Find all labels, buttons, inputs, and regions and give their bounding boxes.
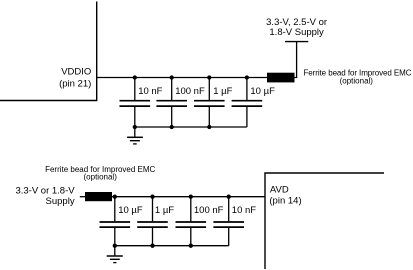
junction node C5 bottom [113,244,117,248]
ferrite bead FB1 (top circuit) [267,73,295,83]
junction node C4 top [245,75,249,79]
svg-text:1.8-V Supply: 1.8-V Supply [269,27,324,38]
annotation ferrite bead for improved EMC (bottom, optional) [45,165,155,182]
junction node C7 top [189,195,193,199]
svg-text:1 µF: 1 µF [155,205,174,216]
junction node C2 bottom [170,125,174,129]
ground (top circuit) [127,127,143,144]
svg-text:100 nF: 100 nF [194,205,224,216]
wire bottom rail (top circuit) [135,126,247,128]
svg-text:10 µF: 10 µF [250,86,275,97]
pin label VDDIO (pin 21) [59,66,91,89]
capacitor C8 (10 nF) [213,197,244,246]
capacitor C1 (10 nF) [120,78,151,128]
svg-text:(pin 21): (pin 21) [59,78,91,89]
junction node C7 bottom [189,244,193,248]
capacitor C7 (100 nF) [176,197,207,246]
svg-text:(pin 14): (pin 14) [269,196,301,207]
wire ferrite bead to supply riser [295,42,297,78]
ferrite bead FB2 (bottom circuit) [85,192,112,201]
capacitor C5 (10 uF) [100,197,131,246]
supply terminal bar (top) [285,41,308,43]
svg-text:(optional): (optional) [84,173,118,182]
svg-text:VDDIO: VDDIO [61,66,91,77]
svg-text:1 µF: 1 µF [213,86,232,97]
net label 3.3-V or 1.8-V Supply (bottom) [15,186,75,207]
pin label AVD (pin 14) [269,184,301,206]
junction node C6 top [150,195,154,199]
ground (bottom circuit) [107,246,123,263]
junction node C8 top [227,195,231,199]
svg-text:10 nF: 10 nF [232,205,256,216]
wire supply to ferrite bead (bottom) [80,196,85,198]
wire ferrite bead to AVD pin [112,196,265,198]
junction node C1 top [133,75,137,79]
capacitor C4 (10 uF) [232,78,263,128]
junction node C3 bottom [207,125,211,129]
capacitor C3 (1 uF) [194,78,225,128]
IC outline U2 (AVD side, bottom-right corner box) [265,173,384,269]
wire VDDIO pin to ferrite bead [97,77,267,79]
svg-text:AVD: AVD [270,184,289,195]
IC outline U1 (VDDIO side, top-left corner box) [0,2,97,101]
svg-text:10 nF: 10 nF [138,86,162,97]
wire bottom rail (bottom circuit) [115,245,229,247]
junction node C3 top [207,75,211,79]
junction node C5 top [113,195,117,199]
svg-text:10 µF: 10 µF [118,205,143,216]
svg-text:100 nF: 100 nF [175,86,205,97]
junction node C2 top [170,75,174,79]
junction node C6 bottom [150,244,154,248]
net label 3.3-V, 2.5-V or 1.8-V Supply [266,17,327,38]
svg-text:Supply: Supply [46,196,75,207]
capacitor C2 (100 nF) [156,78,187,128]
junction node C1 bottom [133,125,137,129]
svg-text:(optional): (optional) [340,77,374,86]
capacitor C6 (1 uF) [137,197,168,246]
annotation ferrite bead for improved EMC (top, optional) [304,69,412,86]
